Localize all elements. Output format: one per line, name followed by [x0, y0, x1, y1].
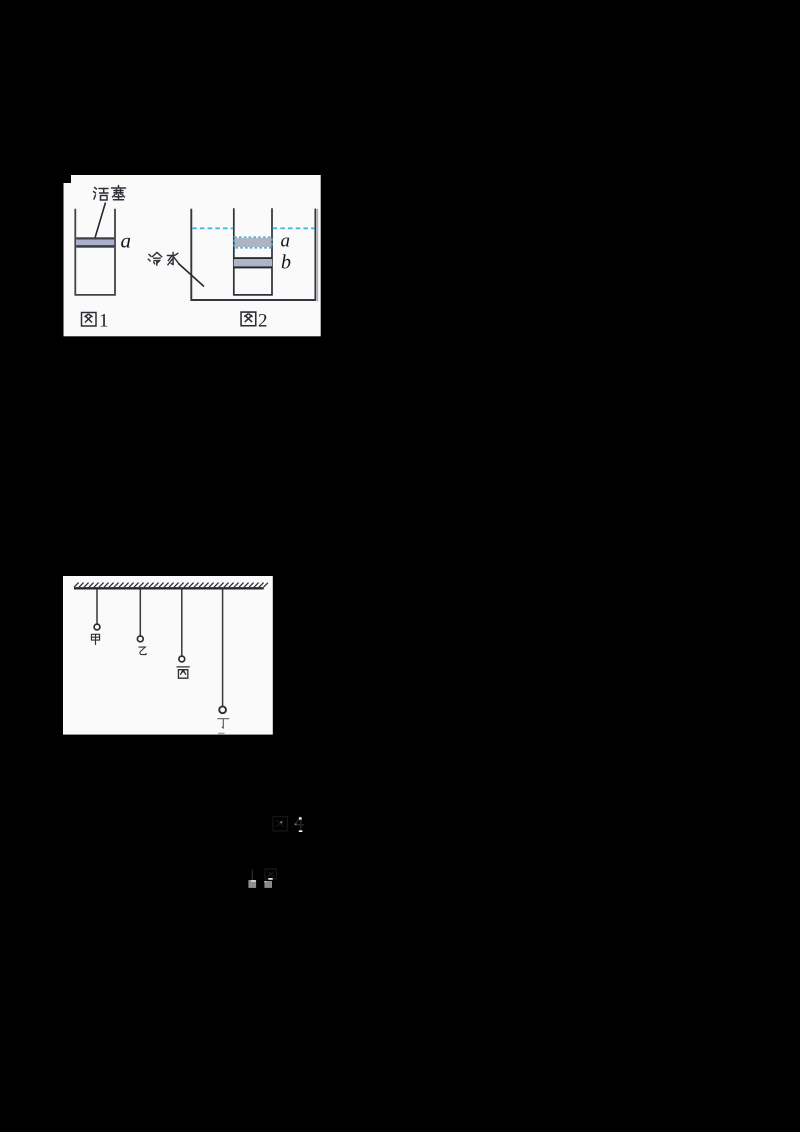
faint mark 图 (of 图4) [273, 817, 287, 831]
piston a in 图1 [76, 237, 114, 247]
svg-text:a: a [281, 231, 291, 252]
faint vertical stroke of lower-left mark [251, 870, 253, 880]
svg-text:a: a [121, 229, 132, 253]
gray blob lower-left [248, 880, 256, 888]
pendulum 丙 string [181, 589, 183, 655]
faint scan line right of beaker [317, 209, 319, 302]
test tube of 图1 [75, 209, 116, 296]
pendulum 丁 bob [219, 706, 226, 713]
faint mark 4 [295, 816, 304, 831]
white dash of lower-right mark [268, 878, 272, 880]
piston a in 图2 (dashed cyan outline) [234, 237, 271, 248]
pendulum 丁 string [222, 589, 224, 706]
inner tube of 图2 [233, 208, 273, 295]
leader line from 冷水 into beaker [179, 264, 205, 287]
leader line from 活塞 to piston [95, 203, 106, 240]
caption 图2 [241, 312, 256, 326]
faint glyph of lower-right mark [265, 869, 277, 879]
pendulum 丙 bob [179, 656, 185, 662]
figure card 2 (pendulum panel) [63, 576, 273, 735]
caption 图1 [82, 313, 97, 327]
pendulum 甲 bob [94, 624, 100, 630]
dashed water level line [192, 227, 315, 229]
ceiling hatching [74, 583, 268, 588]
gray blob lower-right [264, 881, 272, 888]
svg-text:1: 1 [99, 311, 109, 332]
beaker of 图2 [191, 209, 317, 301]
faint dash under 丁 [218, 733, 225, 735]
pendulum 乙 bob [137, 636, 143, 642]
figure card 1 (图1/图2 panel) [64, 175, 321, 336]
label 丙 [177, 667, 190, 678]
svg-text:2: 2 [258, 311, 268, 332]
bright dash under 4 [299, 830, 303, 832]
pendulum 甲 string [96, 589, 98, 623]
piston b in 图2 [234, 257, 272, 268]
label 甲 [91, 634, 99, 645]
label 丁 (faded) [217, 719, 229, 728]
svg-text:b: b [281, 251, 291, 273]
bright top edge of lower-left blob [251, 880, 256, 882]
ceiling line [74, 587, 264, 589]
pendulum 乙 string [139, 589, 141, 635]
dim speck on 4 [295, 824, 297, 826]
label 冷水 (cold water) [148, 252, 179, 265]
label 乙 [139, 647, 147, 655]
bright speck on 4 [299, 817, 302, 819]
white speck in 图 [280, 821, 282, 823]
label 活塞 (piston) [94, 186, 126, 201]
bright pixel on lower-right blob [264, 881, 266, 882]
